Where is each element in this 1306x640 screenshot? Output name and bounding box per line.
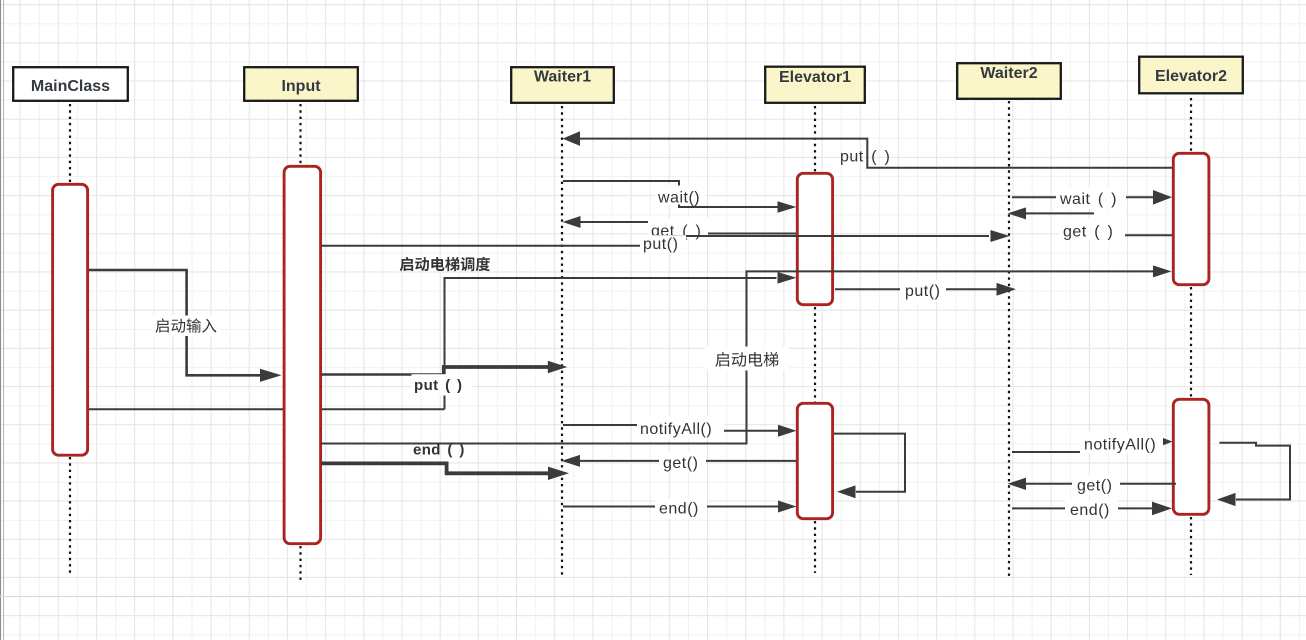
lifeline Input (299, 104, 301, 581)
arrow end() from Waiter1 to Elevator1 (563, 506, 778, 508)
arrow 启动输入 from MainClass to Input (89, 270, 260, 375)
arrow get ( ) from Elevator2 to Waiter2 (1026, 213, 1172, 235)
arrow put() from Elevator1 to Waiter2 (835, 288, 997, 290)
arrow put() from Input to Waiter2 (321, 236, 989, 246)
svg-text:Waiter2: Waiter2 (980, 65, 1037, 82)
activation bar MainClass (53, 184, 88, 455)
page left edge line (0, 0, 2, 640)
activation bar Elevator2 second (1173, 399, 1209, 514)
arrow get() from Elevator2 to Waiter2 (1026, 483, 1176, 485)
self-call loop on Elevator2 (1219, 443, 1290, 500)
arrow wait ( ) from Waiter2 to Elevator2 (1012, 196, 1153, 198)
svg-text:MainClass: MainClass (31, 78, 110, 95)
activation bar Elevator2 first (1173, 153, 1209, 284)
arrow end ( ) bold from Input to Waiter1 (321, 463, 548, 473)
arrow get ( ) from Elevator1 to Waiter1 (580, 222, 796, 234)
svg-text:put(): put() (905, 283, 940, 300)
object header Waiter1 (511, 67, 614, 103)
svg-text:Elevator1: Elevator1 (779, 69, 851, 86)
arrow 启动电梯 from Input to Elevator2 (321, 271, 1153, 443)
lifeline Elevator2 (1190, 98, 1192, 575)
arrow notifyAll() from Waiter2 to Elevator2 (1012, 442, 1160, 452)
svg-text:put ( ): put ( ) (414, 377, 462, 394)
activation bar Elevator1 first (797, 173, 832, 304)
arrow get() from Elevator1 to Waiter1 (580, 460, 796, 462)
svg-text:wait(): wait() (657, 190, 700, 207)
svg-text:end ( ): end ( ) (413, 442, 465, 459)
arrow put ( ) bold from Input to Waiter1 (321, 373, 445, 376)
lifeline Waiter2 (1008, 101, 1010, 578)
arrow wait() from Waiter1 to Elevator1 (563, 181, 778, 207)
label 启动电梯 (705, 347, 789, 371)
svg-text:end(): end() (659, 501, 699, 518)
object header Waiter2 (957, 63, 1061, 99)
lifeline Waiter1 (561, 106, 563, 575)
label 启动电梯调度 (400, 257, 490, 271)
arrow notifyAll() from Waiter1 to Elevator1 (563, 425, 778, 431)
svg-text:wait ( ): wait ( ) (1059, 191, 1117, 208)
svg-text:get(): get() (663, 455, 698, 472)
object header Elevator1 (765, 67, 865, 103)
page left inner edge line (3, 0, 5, 640)
label 启动输入 (151, 316, 221, 337)
arrow 启动电梯调度 from MainClass to Elevator1 (89, 278, 777, 409)
arrow end() from Waiter2 to Elevator2 (1012, 507, 1152, 509)
svg-text:get ( ): get ( ) (1063, 224, 1113, 241)
activation bar Elevator1 second (797, 403, 832, 518)
svg-text:Elevator2: Elevator2 (1155, 68, 1227, 85)
svg-text:Waiter1: Waiter1 (534, 68, 591, 85)
lifeline Elevator1 (814, 106, 816, 573)
svg-text:notifyAll(): notifyAll() (1084, 437, 1156, 454)
lifeline MainClass (69, 104, 71, 575)
svg-text:put(): put() (643, 236, 678, 253)
object header Elevator2 (1139, 57, 1243, 94)
svg-text:end(): end() (1070, 502, 1110, 519)
arrow put ( ) from Elevator2 to Waiter1 (580, 139, 1172, 168)
page bottom boundary line (0, 596, 1306, 598)
svg-text:get(): get() (1077, 478, 1112, 495)
object header MainClass (13, 67, 128, 101)
svg-text:notifyAll(): notifyAll() (640, 421, 712, 438)
svg-text:Input: Input (281, 78, 321, 95)
self-call loop on Elevator1 (834, 434, 905, 492)
svg-text:put ( ): put ( ) (840, 149, 890, 166)
object header Input (244, 67, 358, 101)
activation bar Input (284, 166, 321, 543)
